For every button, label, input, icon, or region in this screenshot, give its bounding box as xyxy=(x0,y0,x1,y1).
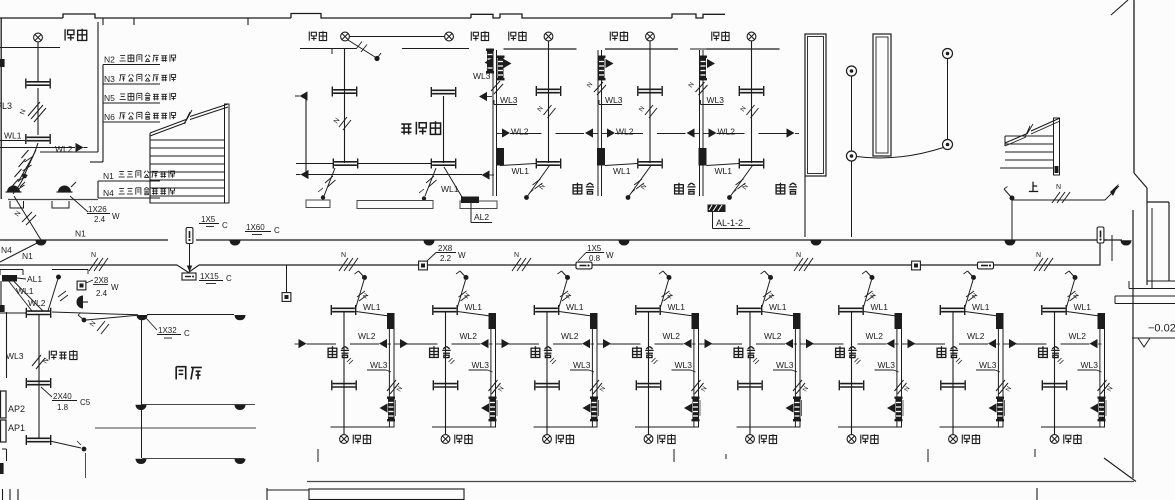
wire slash N top unit T1 xyxy=(544,105,552,115)
wire bend to corner + arrow xyxy=(1105,186,1119,200)
luminaire stack glyph S1 right pair xyxy=(497,56,505,81)
svg-text:PL3: PL3 xyxy=(0,101,12,111)
luminaire triangle WL2 right end xyxy=(782,133,786,135)
svg-text:N: N xyxy=(91,252,96,259)
svg-text:WL2: WL2 xyxy=(764,331,782,341)
riser drop unit B3 xyxy=(591,328,593,427)
label 阳台 unit B5 xyxy=(759,435,766,444)
svg-text:WL2: WL2 xyxy=(460,331,478,341)
junction vpill right end xyxy=(1097,227,1104,243)
balcony edge unit B7 xyxy=(940,426,1004,428)
svg-text:2X40: 2X40 xyxy=(53,392,72,401)
wall tick below units e xyxy=(1034,449,1036,457)
window top unit T2 xyxy=(638,86,662,96)
feeder bar S2 xyxy=(597,148,605,166)
switch leg unit B8 xyxy=(1067,280,1075,307)
svg-text:N: N xyxy=(1005,385,1014,393)
switch leg unit B3 xyxy=(559,280,567,307)
panel box left edge xyxy=(0,59,5,67)
label 阳台 unit B4 xyxy=(658,435,665,444)
feeder bar S1 xyxy=(496,148,504,166)
riser drop unit B4 xyxy=(693,328,695,427)
wall activity left xyxy=(305,96,307,174)
svg-text:N1: N1 xyxy=(103,171,114,181)
junction dome hall 1a xyxy=(135,405,146,410)
lamp half-dome entry wall xyxy=(76,296,83,309)
svg-text:0.8: 0.8 xyxy=(589,254,601,263)
switch leg duty lower xyxy=(50,441,81,448)
wall step horizontal lower 1 xyxy=(1147,280,1175,282)
wire top border bump 5 xyxy=(672,14,725,18)
wall left edge lower xyxy=(0,281,2,305)
window unit B6 xyxy=(839,380,863,390)
luminaire triangle S1 mid-left xyxy=(479,92,487,101)
svg-text:WL1: WL1 xyxy=(441,184,459,194)
svg-text:N: N xyxy=(362,292,371,300)
wire WL2 run unit B7 xyxy=(915,343,946,345)
feeder bar unit B6 xyxy=(895,313,903,329)
lamp half-dome entrance A xyxy=(7,186,20,192)
svg-text:W: W xyxy=(112,212,120,221)
wire WL1 top T2 xyxy=(605,164,638,166)
svg-text:WL1: WL1 xyxy=(512,166,530,176)
wire AL1 feeds xyxy=(9,282,32,312)
svg-text:WL2: WL2 xyxy=(866,331,884,341)
panel AL-1-3 unit B3 xyxy=(590,397,598,422)
balcony edge unit B5 xyxy=(737,426,801,428)
svg-text:N: N xyxy=(903,385,912,393)
svg-text:WL2: WL2 xyxy=(718,127,736,137)
window top unit T1 lower wall xyxy=(536,159,560,169)
svg-text:N: N xyxy=(514,252,519,259)
wire slash N activity left xyxy=(339,117,347,127)
wire entrance lintel xyxy=(8,199,98,201)
label 上 xyxy=(1029,182,1038,192)
riser drop unit B7 xyxy=(997,328,999,427)
feeder bar unit B7 xyxy=(996,313,1004,329)
switch leg activity lamp xyxy=(348,40,375,57)
wire WL2 entry stub xyxy=(0,312,26,314)
svg-text:N: N xyxy=(333,117,342,125)
luminaire triangle WL2 end xyxy=(76,143,84,152)
label 活动室 xyxy=(401,124,411,134)
label 阳台 top unit T1 xyxy=(509,32,516,41)
wall duty room vertical xyxy=(38,314,40,438)
wall inner room upper-left xyxy=(97,22,99,152)
svg-text:N1: N1 xyxy=(22,251,33,261)
feeder bar unit B5 xyxy=(793,313,801,329)
wire slash N marks corridor xyxy=(89,258,98,271)
svg-text:AL-1-2: AL-1-2 xyxy=(716,218,743,228)
svg-text:N: N xyxy=(1056,184,1061,191)
luminaire triangle WL2 S2 left xyxy=(593,133,598,135)
svg-text:WL2: WL2 xyxy=(358,331,376,341)
wire WL2 run top T1 xyxy=(510,133,542,135)
svg-text:1X60: 1X60 xyxy=(246,223,265,232)
window WL1 wall unit B4 xyxy=(636,305,660,315)
svg-text:2.2: 2.2 xyxy=(440,254,452,263)
balcony edge unit B1 xyxy=(331,426,395,428)
wire balcony edge activity xyxy=(300,48,356,50)
wall tick below units c xyxy=(725,454,727,459)
window W upper-left 2 xyxy=(26,134,50,144)
wall tick c xyxy=(247,18,249,25)
panel AL-1-3 unit B1 xyxy=(387,397,395,422)
svg-text:1X15: 1X15 xyxy=(200,272,219,281)
wire WL2 run top T2 xyxy=(615,133,643,135)
wire short tick right corridor xyxy=(1111,235,1113,261)
wire detector pair right xyxy=(947,59,949,140)
junction dome taps on N1 bus xyxy=(35,240,46,245)
svg-text:N3: N3 xyxy=(104,74,115,84)
luminaire triangle WL2 left B5 xyxy=(785,339,793,348)
svg-text:WL2: WL2 xyxy=(663,331,681,341)
window top unit T1 xyxy=(536,86,560,96)
bench activity 2 xyxy=(357,201,433,209)
wire WL2 run unit B1 xyxy=(295,343,299,345)
wire WL2 end stub xyxy=(795,133,799,135)
riser conduit S2 double line xyxy=(597,50,599,196)
junction dome N1 right end xyxy=(1120,240,1131,245)
wall tick a xyxy=(102,18,104,25)
label 阳台 unit B8 xyxy=(1064,435,1071,444)
label 宿舍 unit B1 xyxy=(328,346,337,357)
svg-text:C: C xyxy=(226,274,232,283)
svg-text:N: N xyxy=(687,81,696,89)
window unit B4 xyxy=(636,380,660,390)
switch tap unit B5 xyxy=(768,275,773,280)
left border wall xyxy=(0,18,2,199)
label AL2 boxed xyxy=(470,203,472,215)
luminaire stack glyph S1 left pair xyxy=(486,49,494,74)
svg-text:WL1: WL1 xyxy=(871,302,889,312)
wire WL2 run unit B3 xyxy=(509,343,540,345)
svg-text:C5: C5 xyxy=(80,398,91,407)
svg-text:N: N xyxy=(796,252,801,259)
luminaire triangle WL2 left B7 xyxy=(988,339,996,348)
svg-text:WL1: WL1 xyxy=(972,302,990,312)
luminaire triangle WL2 left B1 xyxy=(379,339,387,348)
bench activity 1 xyxy=(306,200,330,208)
window WL2 entry xyxy=(26,308,50,318)
svg-text:WL3: WL3 xyxy=(1081,360,1099,370)
label 阳台 top unit T2 xyxy=(610,32,617,41)
svg-text:1X5: 1X5 xyxy=(587,244,602,253)
wall unit B4 vertical xyxy=(648,312,650,435)
wire WL1 to feeder bar B2 xyxy=(458,312,491,317)
svg-text:AL2: AL2 xyxy=(474,212,489,222)
svg-text:C: C xyxy=(184,329,190,338)
svg-text:N: N xyxy=(768,292,777,300)
wall step horizontal lower 3 xyxy=(1115,295,1175,297)
lamp balcony upper-left xyxy=(34,33,43,42)
panel AP1 box xyxy=(1,420,7,442)
window WL1 wall unit B7 xyxy=(940,305,964,315)
label 阳台 activity balcony xyxy=(309,32,316,41)
wire slash N S2 xyxy=(594,82,603,92)
wall left lower vertical xyxy=(6,312,8,378)
elevation triangle marker xyxy=(1138,338,1150,347)
switch tap unit B4 xyxy=(667,275,672,280)
junction dome hall top xyxy=(136,315,147,320)
feeder bar unit B1 xyxy=(387,313,395,329)
wire WL2 run activity lower xyxy=(309,174,483,176)
wire N2-N6 bracket xyxy=(102,65,104,163)
wire balcony tick xyxy=(331,49,333,55)
switch leg unit B2 xyxy=(458,280,466,307)
svg-text:N: N xyxy=(599,385,608,393)
svg-text:N: N xyxy=(741,183,750,191)
wire top border bump 1 xyxy=(63,14,291,18)
panel AL1 box xyxy=(2,275,17,282)
switch leg unit B7 xyxy=(965,280,973,307)
balcony edge unit B6 xyxy=(838,426,902,428)
wall tick below units d xyxy=(927,449,929,462)
wire slash N duty xyxy=(32,355,41,366)
stair left edge tick xyxy=(1004,136,1006,146)
stair upper-left treads xyxy=(150,139,225,141)
label 宿舍 top unit T1 xyxy=(573,183,582,194)
wire hall upper run xyxy=(147,314,234,316)
label 阳台 top unit T3 xyxy=(712,32,719,41)
wire WL2 run unit B8 xyxy=(1016,343,1047,345)
svg-text:2X8: 2X8 xyxy=(94,276,109,285)
junction box sq entry xyxy=(77,281,86,290)
luminaire triangle WL2 left B3 xyxy=(582,339,590,348)
label 宿舍 unit B7 xyxy=(937,346,946,357)
wall unit B1 vertical xyxy=(343,312,345,435)
lamp 阳台 unit B1 xyxy=(343,427,345,435)
detector circle pair right xyxy=(943,49,953,59)
switch leg unit B4 xyxy=(661,280,669,307)
wall step horizontal xyxy=(1147,201,1169,203)
label 阳台 upper-left xyxy=(65,29,74,40)
wire slash marks N 1X26 xyxy=(22,212,32,222)
wall bottom long edge xyxy=(307,481,1134,483)
panel box left mid xyxy=(0,305,5,312)
window unit B3 xyxy=(535,380,559,390)
svg-text:WL3: WL3 xyxy=(472,360,490,370)
svg-text:WL1: WL1 xyxy=(363,302,381,312)
lamp 阳台 unit B5 xyxy=(749,427,751,435)
svg-text:1X32: 1X32 xyxy=(158,326,177,335)
wire feed to N1 bus xyxy=(14,196,41,240)
label 阳台 right of lamp2 xyxy=(471,32,478,41)
lamp activity 2 xyxy=(445,32,454,41)
svg-text:AP1: AP1 xyxy=(8,423,25,433)
wall bottom-left step xyxy=(266,488,268,500)
wall bottom right diagonal xyxy=(1104,458,1136,482)
wire slash N top unit T2 xyxy=(645,105,653,115)
switch leg top T3 xyxy=(731,166,753,197)
wire N1 corridor bus right xyxy=(196,239,1107,241)
wire slash N unit B8 lower xyxy=(1098,380,1107,391)
label 阳台 unit B7 xyxy=(962,435,969,444)
svg-text:WL3: WL3 xyxy=(473,71,491,81)
wall activity lower connecting xyxy=(296,163,333,165)
window WL1 wall unit B2 xyxy=(433,305,457,315)
junction dot entrance xyxy=(22,174,27,179)
elevation datum line xyxy=(1132,337,1175,339)
wire top border bump 2 xyxy=(291,14,471,19)
luminaire triangle WL2 S3 left xyxy=(695,133,700,135)
wire corridor funnel xyxy=(177,265,199,273)
luminaire stack glyph S2 xyxy=(598,56,606,81)
wire slash marks PL3 feed xyxy=(28,102,40,116)
wire WL1 top T3 xyxy=(707,164,740,166)
window top unit T2 lower wall xyxy=(638,159,662,169)
svg-text:N: N xyxy=(700,385,709,393)
svg-text:WL2: WL2 xyxy=(561,331,579,341)
svg-text:WL2: WL2 xyxy=(511,127,529,137)
wire slash N unit B3 lower xyxy=(590,380,599,391)
luminaire triangle activity left top xyxy=(300,91,308,100)
wire top border bump 4 xyxy=(500,14,672,18)
switch leg unit B1 xyxy=(356,280,364,307)
feeder bar unit B2 xyxy=(489,313,497,329)
svg-text:WL3: WL3 xyxy=(707,95,725,105)
luminaire stack glyph S3 xyxy=(699,56,707,81)
feeder drop arrow to 1X15 xyxy=(189,244,191,272)
window W upper-left 1 xyxy=(26,79,50,89)
svg-text:WL2: WL2 xyxy=(967,331,985,341)
wire WL1 to feeder bar B1 xyxy=(356,312,389,317)
room 宿舍 top unit T1 balcony edge xyxy=(504,48,577,50)
window WL1 wall unit B3 xyxy=(534,305,558,315)
junction dome hall top right xyxy=(234,315,245,320)
panel AL-1-3 unit B5 xyxy=(793,397,801,422)
luminaire triangle WL2 right B7 xyxy=(1004,343,1010,345)
wire slash N unit B7 lower xyxy=(996,380,1005,391)
window WL1 wall unit B6 xyxy=(839,305,863,315)
wire slash N unit B4 lower xyxy=(692,380,701,391)
switch leg stair light xyxy=(1010,196,1015,201)
junction dome hall 2b xyxy=(234,459,245,464)
panel AL-1-2 hatched box xyxy=(708,205,726,213)
label 宿舍 unit B3 xyxy=(531,346,540,357)
panel AL-1-3 unit B7 xyxy=(996,397,1004,422)
wall activity interior left vertical xyxy=(344,49,346,164)
svg-text:WL2: WL2 xyxy=(616,127,634,137)
wire WL2 run upper-left xyxy=(0,147,75,149)
svg-text:N: N xyxy=(89,320,98,328)
lamp 阳台 unit B8 xyxy=(1054,427,1056,435)
wire WL2 run unit B6 xyxy=(813,343,844,345)
svg-text:WL1: WL1 xyxy=(4,131,22,141)
wall inner step vertical xyxy=(1151,208,1153,289)
switch tap unit B3 xyxy=(565,275,570,280)
svg-text:N: N xyxy=(497,385,506,393)
svg-text:N: N xyxy=(341,252,346,259)
wire slash N unit B5 lower xyxy=(793,380,802,391)
wire detector drop to corridor xyxy=(851,161,853,237)
label 值班室 xyxy=(49,351,56,360)
wire WL3 riser segment xyxy=(37,88,39,135)
room 宿舍 top unit T3 balcony edge xyxy=(707,48,780,50)
wire hall ceiling run 2 xyxy=(95,427,256,429)
label 阳台 unit B1 xyxy=(353,435,360,444)
wire slash N stair xyxy=(1052,192,1060,203)
luminaire triangle WL2 S1 right xyxy=(497,133,502,135)
window WL1 wall unit B5 xyxy=(737,305,761,315)
luminaire triangle WL2 right B6 xyxy=(902,343,908,345)
stair right flight slant xyxy=(1005,134,1026,143)
wire N1 stub right xyxy=(1104,239,1122,241)
wire hall feed from left xyxy=(52,312,138,315)
door lintel AL1 xyxy=(0,269,23,271)
window unit B7 xyxy=(941,380,965,390)
wall tick b xyxy=(133,18,135,25)
shaft double rectangle 1 xyxy=(805,34,826,176)
detector circle pair left xyxy=(847,66,857,76)
panel AL-1-3 unit B6 xyxy=(895,397,903,422)
switch leg top T1 xyxy=(528,166,550,197)
cable tag 1X26 2.4 W xyxy=(70,196,88,212)
svg-text:WL2: WL2 xyxy=(28,298,46,308)
svg-text:N: N xyxy=(666,292,675,300)
svg-text:N: N xyxy=(739,105,748,113)
svg-text:N: N xyxy=(1106,385,1115,393)
svg-text:N: N xyxy=(640,183,649,191)
window activity lower-right xyxy=(431,159,455,169)
bench activity 3 xyxy=(460,201,497,209)
svg-text:AL1: AL1 xyxy=(27,274,42,284)
wire slash N hall feed xyxy=(97,321,105,331)
label 阳台 unit B3 xyxy=(556,435,563,444)
svg-text:WL1: WL1 xyxy=(465,302,483,312)
svg-text:WL3: WL3 xyxy=(605,95,623,105)
wall top unit T3 vertical xyxy=(751,41,753,163)
wall right step vertical B xyxy=(1168,202,1170,281)
wire lamp drop xyxy=(37,42,39,81)
label 宿舍 unit B8 xyxy=(1039,346,1048,357)
balcony edge unit B8 xyxy=(1041,426,1105,428)
junction vpill on N1 bus xyxy=(186,228,193,244)
feeder bar unit B8 xyxy=(1098,313,1106,329)
switch leg activity lower-right xyxy=(425,168,436,196)
svg-text:WL3: WL3 xyxy=(573,360,591,370)
wall unit B2 vertical xyxy=(445,312,447,435)
feeder bar unit B3 xyxy=(590,313,598,329)
luminaire triangle WL2 left B6 xyxy=(887,339,895,348)
stair break mark xyxy=(184,110,192,124)
panel AL-1-3 unit B8 xyxy=(1098,397,1106,422)
wire slash N unit B1 lower xyxy=(387,380,396,391)
junction box sq below corridor xyxy=(282,293,291,302)
stair upper-left right rail xyxy=(225,104,230,203)
svg-text:WL2: WL2 xyxy=(1069,331,1087,341)
label 宿舍 unit B4 xyxy=(633,346,642,357)
luminaire triangle WL2 activity end xyxy=(482,170,490,179)
window unit B2 xyxy=(433,380,457,390)
svg-text:N: N xyxy=(463,292,472,300)
cable tag 2X40 1.8 C5 xyxy=(41,387,52,397)
balcony edge unit B4 xyxy=(635,426,699,428)
svg-text:2.4: 2.4 xyxy=(94,215,106,224)
label 宿舍 unit B6 xyxy=(836,346,845,357)
svg-text:N6: N6 xyxy=(104,112,115,122)
label 阳台 unit B2 xyxy=(455,435,462,444)
riser drop unit B8 xyxy=(1099,328,1101,427)
switch leg entry door xyxy=(48,277,59,311)
junction hpill corridor 2 xyxy=(978,262,994,269)
stair right break mark xyxy=(1025,124,1033,137)
cable tag 1X32 C xyxy=(146,318,157,330)
svg-text:N: N xyxy=(869,292,878,300)
wire top border bump 3 xyxy=(471,14,500,18)
svg-text:WL1: WL1 xyxy=(769,302,787,312)
riser drop unit B6 xyxy=(896,328,898,427)
